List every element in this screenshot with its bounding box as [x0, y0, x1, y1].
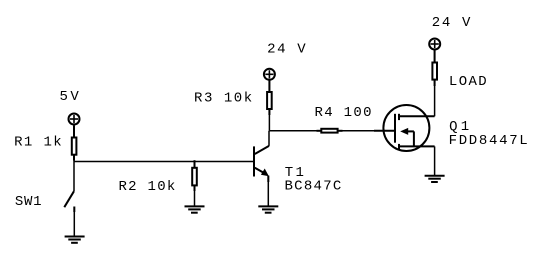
- svg-text:24 V: 24 V: [432, 15, 471, 31]
- svg-text:5V: 5V: [60, 89, 80, 105]
- svg-text:R1 1k: R1 1k: [14, 134, 62, 150]
- svg-text:24 V: 24 V: [267, 42, 306, 58]
- svg-text:SW1: SW1: [15, 194, 42, 210]
- svg-text:FDD8447L: FDD8447L: [449, 133, 528, 149]
- svg-text:LOAD: LOAD: [449, 74, 487, 90]
